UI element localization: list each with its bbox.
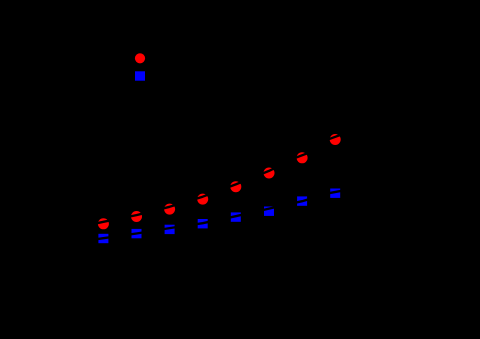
red data point 8 — [330, 134, 341, 145]
red data point 5 — [230, 181, 241, 192]
blue data point 2 — [132, 229, 142, 238]
blue data point 1 — [98, 234, 108, 243]
red data point 6 — [264, 168, 275, 179]
fit line over red series (black, visible only where it crosses markers) — [85, 131, 352, 226]
fit line over blue series (black, visible only where it crosses markers) — [85, 189, 352, 241]
red data point 3 — [164, 204, 175, 215]
blue data point 7 — [297, 196, 307, 205]
legend marker: blue square series — [135, 71, 145, 80]
red data point 1 — [98, 218, 109, 229]
legend marker: red circle series — [135, 53, 145, 63]
blue data point 3 — [165, 225, 175, 234]
blue data point 4 — [198, 219, 208, 228]
blue data point 5 — [231, 212, 241, 221]
red data point 7 — [297, 152, 308, 163]
red data point 4 — [197, 194, 208, 205]
blue data point 8 — [330, 189, 340, 198]
blue data point 6 — [264, 207, 274, 216]
red data point 2 — [131, 211, 142, 222]
